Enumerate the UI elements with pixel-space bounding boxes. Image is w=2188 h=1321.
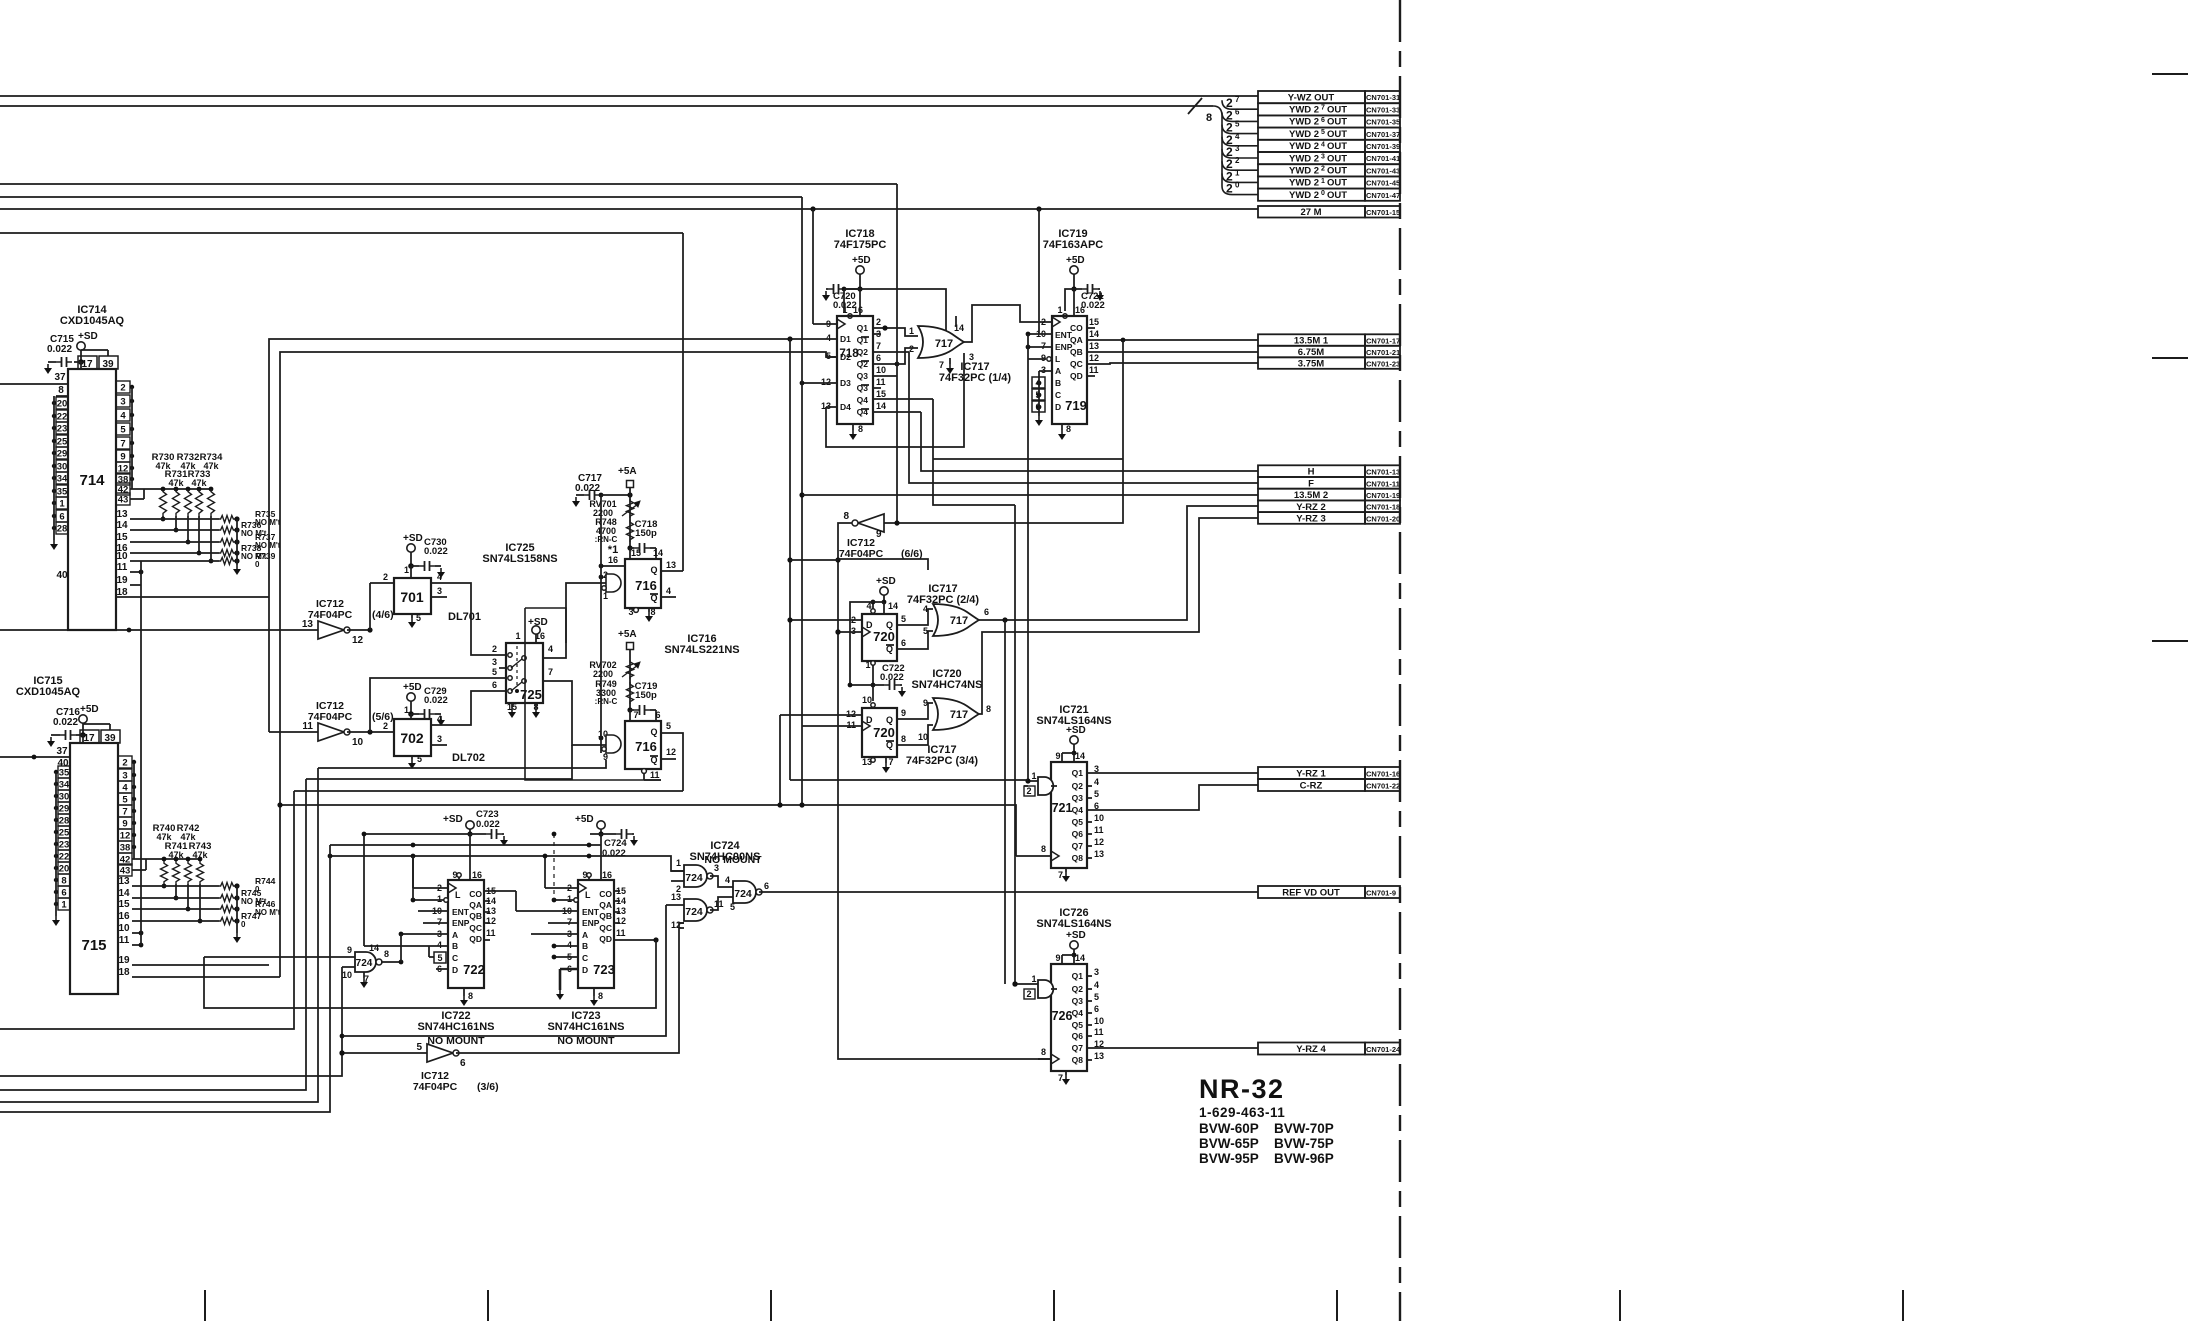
IC715 pin 8 [58, 874, 70, 886]
svg-text:OUT: OUT [1327, 166, 1347, 177]
svg-text:5: 5 [416, 613, 421, 623]
svg-text:3: 3 [1094, 967, 1099, 977]
svg-text:8: 8 [468, 991, 473, 1001]
svg-text:REF VD OUT: REF VD OUT [1282, 888, 1340, 899]
IC719 pin 4 boxed [1032, 377, 1045, 388]
svg-text:Q3: Q3 [1072, 996, 1084, 1006]
svg-text:30: 30 [57, 462, 68, 473]
svg-text:OUT: OUT [1327, 141, 1347, 152]
svg-text::RN-C: :RN-C [595, 697, 618, 706]
svg-text:YWD 2: YWD 2 [1289, 190, 1319, 201]
svg-text:14: 14 [876, 401, 886, 411]
wire net C (IC714 pin loop to 716) [0, 232, 683, 234]
svg-text:19: 19 [118, 955, 130, 966]
connector row 6.75M CN701-21 [1258, 346, 1365, 358]
sheet boundary dash-dot line right [1399, 0, 1401, 1321]
wire bundle v318 [0, 768, 318, 1102]
svg-text:10: 10 [352, 737, 364, 748]
svg-text:9: 9 [1055, 751, 1060, 761]
svg-text:8: 8 [843, 511, 849, 522]
svg-text:16: 16 [853, 305, 863, 315]
svg-text:3: 3 [714, 863, 719, 873]
wire IC714 pin 18 net [116, 596, 269, 598]
wire bundle v342 [0, 967, 342, 1076]
svg-text:1: 1 [59, 499, 65, 510]
wire inverter5 output to DL702 [347, 731, 394, 733]
wire v780 stub [779, 715, 781, 805]
IC714 left pin common rail + ground [53, 396, 55, 540]
wire D1/QA junction vertical [789, 339, 791, 780]
svg-text:702: 702 [400, 730, 424, 746]
svg-text:QD: QD [599, 934, 612, 944]
svg-text:9: 9 [876, 529, 882, 540]
IC715 pin 1 [58, 898, 70, 910]
svg-text:Q1: Q1 [857, 323, 869, 333]
svg-text:14: 14 [1075, 953, 1085, 963]
svg-text:6: 6 [460, 1058, 466, 1069]
svg-text:15: 15 [631, 548, 641, 558]
wire 724a out to 724b [710, 876, 733, 887]
svg-text:DL702: DL702 [452, 752, 485, 764]
svg-text:D: D [1055, 402, 1061, 412]
IC714 pin 7 [116, 437, 130, 449]
wire IC714 pin 10 row [130, 560, 219, 562]
svg-text:3: 3 [1235, 144, 1240, 153]
wire y805 bus [280, 804, 928, 806]
svg-text:SN74LS158NS: SN74LS158NS [482, 553, 557, 565]
svg-text:1: 1 [515, 631, 520, 641]
wire 721 and-input feed [790, 779, 1028, 781]
svg-text:CN701-35: CN701-35 [1366, 118, 1400, 127]
svg-text:47k: 47k [168, 850, 184, 860]
svg-text:CN701-37: CN701-37 [1366, 130, 1400, 139]
wire 722 clock feed [412, 856, 414, 888]
wire inverter4 output to DL701 [347, 629, 370, 631]
svg-text:0.022: 0.022 [476, 819, 500, 830]
svg-text:4: 4 [1094, 777, 1099, 787]
svg-text:8: 8 [384, 949, 389, 959]
resistor body at x199 [196, 489, 203, 516]
connector row F CN701-11 [1258, 477, 1365, 489]
svg-text:1: 1 [567, 894, 572, 904]
resistor R739 0 [219, 558, 235, 565]
frame tick bottom 5 [1336, 1290, 1338, 1321]
IC714 pin 29 [56, 447, 68, 459]
svg-text:Q3: Q3 [857, 371, 869, 381]
svg-text:OUT: OUT [1327, 153, 1347, 164]
IC715 pin 35 [58, 766, 70, 778]
IC715 pin 9 [118, 817, 132, 829]
wire 722 pin1 feed [412, 856, 414, 900]
connector row REF VD OUT CN701-9 [1258, 886, 1365, 898]
IC714 pin 28 [56, 522, 68, 534]
svg-text:Q1: Q1 [1072, 768, 1084, 778]
wire C723 to IC722 pin16 [469, 834, 471, 880]
svg-text:717: 717 [935, 338, 953, 350]
svg-text:13: 13 [671, 892, 681, 902]
svg-text:1: 1 [865, 660, 870, 670]
svg-text:3: 3 [1321, 154, 1325, 161]
counter 722 (IC722) [448, 880, 484, 988]
svg-text:7: 7 [939, 360, 944, 370]
IC714 pin 30 [56, 460, 68, 472]
wire IC715 pin 15 row [132, 908, 219, 910]
resistor R735 NO M't [219, 516, 235, 523]
svg-text:B: B [582, 941, 588, 951]
svg-text:3: 3 [1041, 365, 1046, 375]
svg-text:9: 9 [901, 708, 906, 718]
resistor body at x211 [208, 489, 215, 516]
IC body 715 (IC715) [70, 743, 118, 994]
svg-text:11: 11 [876, 377, 886, 387]
svg-text:+SD: +SD [78, 331, 98, 342]
IC715 pin 12 [118, 829, 132, 841]
svg-text:(3/6): (3/6) [477, 1081, 499, 1093]
svg-text:0: 0 [241, 920, 246, 929]
svg-text:14: 14 [116, 520, 128, 531]
svg-text:14: 14 [1089, 329, 1099, 339]
svg-text:17: 17 [83, 733, 95, 744]
svg-text:7: 7 [888, 757, 893, 767]
wire 724d output [381, 961, 401, 963]
delay line DL702 (702) [394, 719, 431, 756]
svg-text:CN701-23: CN701-23 [1366, 359, 1400, 368]
svg-text:4: 4 [122, 783, 128, 794]
svg-text:6: 6 [764, 881, 769, 891]
svg-text:+SD: +SD [876, 576, 896, 587]
IC714 pin 43 [116, 493, 130, 505]
svg-text:CN701-15: CN701-15 [1366, 208, 1400, 217]
wire IC714 pin10/11 vertical net to IC715 [140, 561, 142, 945]
svg-text:QB: QB [1070, 347, 1083, 357]
svg-text:SN74HC161NS: SN74HC161NS [547, 1021, 624, 1033]
svg-text:8: 8 [1066, 424, 1071, 434]
svg-text:724: 724 [734, 888, 752, 900]
IC714 pin 12 [116, 462, 130, 474]
wire 716b Q pin5 loop [676, 733, 683, 791]
svg-text:10: 10 [876, 365, 886, 375]
svg-text:6: 6 [901, 638, 906, 648]
wire 27M net [0, 208, 1258, 210]
wire 716a Q pin13 net [682, 233, 684, 571]
716b trigger gate [606, 735, 621, 753]
wire OR3 output to Y-RZ3 net [979, 518, 1258, 714]
svg-text:15: 15 [1089, 317, 1099, 327]
svg-text:CN701-39: CN701-39 [1366, 142, 1400, 151]
svg-text:BVW-96P: BVW-96P [1274, 1151, 1334, 1166]
resistor body at x176 (715) [173, 861, 180, 884]
svg-text:14: 14 [1075, 751, 1085, 761]
wire pin42 rail to resistors [130, 488, 211, 490]
svg-text:720: 720 [873, 725, 895, 740]
svg-text:3: 3 [851, 626, 856, 636]
wire IC721 clock net [928, 805, 1016, 856]
trimmer RV702 2200 [627, 660, 634, 679]
svg-text:5: 5 [666, 721, 671, 731]
svg-text:Q6: Q6 [1072, 1031, 1084, 1041]
connector row C-RZ CN701-22 [1258, 779, 1365, 791]
wire net A (to IC718 area) [0, 183, 897, 185]
svg-text:11: 11 [486, 928, 496, 938]
svg-text:4: 4 [548, 644, 553, 654]
trimmer RV701 2200 [627, 499, 634, 518]
svg-text:6: 6 [1321, 117, 1325, 124]
svg-text:5: 5 [901, 614, 906, 624]
wire IC715 pin 19 net [132, 964, 269, 966]
wire C721 rail left [1065, 289, 1074, 311]
svg-text:Y-WZ OUT: Y-WZ OUT [1288, 92, 1335, 103]
wire 724c input 12 net [679, 927, 684, 929]
svg-text:4: 4 [1321, 141, 1325, 148]
wire bundle y779 [306, 745, 572, 779]
IC715 pin 4 [118, 781, 132, 793]
svg-text:Y-RZ 2: Y-RZ 2 [1296, 502, 1326, 513]
wire IC721 Q1 to Y-RZ1 [1092, 772, 1258, 774]
svg-text:Q: Q [886, 620, 893, 630]
svg-text:B: B [1055, 378, 1061, 388]
IC714 pin 20 [56, 397, 68, 409]
svg-text:15: 15 [876, 389, 886, 399]
svg-text:QB: QB [469, 911, 482, 921]
wire bundle v292 y791 [294, 790, 683, 792]
bus branch 2^4 [1222, 137, 1258, 146]
svg-text:QC: QC [1070, 359, 1083, 369]
svg-text:29: 29 [57, 449, 68, 460]
svg-text:L: L [1055, 354, 1060, 364]
svg-text:717: 717 [950, 615, 968, 627]
svg-text:Q4: Q4 [1072, 1008, 1084, 1018]
one-shot 716b (IC716) [625, 721, 661, 769]
svg-text:YWD 2: YWD 2 [1289, 178, 1319, 189]
svg-text:27 M: 27 M [1300, 207, 1321, 218]
svg-text:2: 2 [1235, 156, 1240, 165]
svg-text:726: 726 [1052, 1009, 1073, 1023]
svg-text:2: 2 [120, 383, 125, 394]
connector row YWD 2 5 OUT CN701-37 [1258, 128, 1365, 140]
IC714 pin 35 [56, 485, 68, 497]
IC714 pin 1 [56, 497, 68, 509]
svg-text:ENT: ENT [452, 907, 470, 917]
resistor R737 NO M't [219, 539, 235, 546]
svg-text:12: 12 [616, 916, 626, 926]
resistor R738 NO M't [219, 550, 235, 557]
wire YWD bus trunk [0, 105, 1213, 107]
svg-text:716: 716 [635, 739, 657, 754]
svg-text:(4/6): (4/6) [372, 609, 394, 621]
wire 716b pin11 loop [644, 779, 661, 781]
svg-text:5: 5 [1094, 992, 1099, 1002]
wire net y459 [933, 458, 1123, 460]
svg-text:Q4: Q4 [1072, 805, 1084, 815]
svg-text:74F163APC: 74F163APC [1043, 239, 1104, 251]
svg-text:BVW-70P: BVW-70P [1274, 1121, 1334, 1136]
svg-text:CN701-47: CN701-47 [1366, 191, 1400, 200]
IC715 pin 29 [58, 802, 70, 814]
svg-text:4: 4 [923, 604, 928, 614]
nand gate 724d (IC724) [355, 952, 376, 972]
svg-text:CN701-43: CN701-43 [1366, 166, 1400, 175]
svg-text:BVW-65P: BVW-65P [1199, 1136, 1259, 1151]
svg-text:2: 2 [1321, 166, 1325, 173]
svg-text:12: 12 [486, 916, 496, 926]
svg-text:74F04PC: 74F04PC [413, 1081, 458, 1093]
svg-text:C: C [1055, 390, 1061, 400]
svg-text:29: 29 [59, 804, 70, 815]
frame tick bottom 7 [1902, 1290, 1904, 1321]
svg-text:5: 5 [1235, 120, 1240, 129]
svg-text:ENP: ENP [582, 918, 600, 928]
wire IC715 pin 13 row [132, 885, 219, 887]
IC714 pin 4 [116, 409, 130, 421]
svg-text:10: 10 [342, 970, 352, 980]
svg-text:+SD: +SD [443, 814, 463, 825]
wire IC715 pin 11 stub [132, 944, 141, 946]
svg-text:7: 7 [1235, 95, 1240, 104]
svg-text:2: 2 [383, 572, 388, 582]
svg-text:723: 723 [593, 962, 615, 977]
svg-text:D: D [866, 620, 873, 630]
IC715 pin 22 [58, 850, 70, 862]
IC719 pin 6 boxed [1032, 401, 1045, 412]
svg-text:47k: 47k [192, 850, 208, 860]
svg-text:6: 6 [984, 607, 989, 617]
IC715 pin 17 [80, 730, 99, 743]
svg-text:CN701-19: CN701-19 [1366, 491, 1400, 500]
svg-text:22: 22 [59, 852, 70, 863]
svg-text:Y-RZ 1: Y-RZ 1 [1296, 769, 1326, 780]
svg-text:YWD 2: YWD 2 [1289, 117, 1319, 128]
IC715 right pin rail [133, 762, 135, 859]
svg-text:CN701-31: CN701-31 [1366, 93, 1400, 102]
svg-text:11: 11 [846, 720, 856, 730]
svg-text:13.5M 2: 13.5M 2 [1294, 490, 1328, 501]
svg-text:12: 12 [666, 747, 676, 757]
connector row 3.75M CN701-23 [1258, 357, 1365, 369]
wire IC714 pin 14 row [130, 529, 219, 531]
svg-text:8: 8 [858, 424, 863, 434]
wire 726 and-input feed [1014, 505, 1016, 984]
delay line DL701 (701) [394, 578, 431, 614]
wire C722 rail down to 720b pin10 [872, 685, 874, 701]
bus slash /8 [1188, 98, 1202, 114]
svg-text:+5D: +5D [80, 704, 99, 715]
svg-text:Q: Q [650, 565, 657, 575]
wire inverter3 input [342, 1052, 427, 1054]
svg-text:13: 13 [666, 560, 676, 570]
connector row YWD 2 0 OUT CN701-47 [1258, 189, 1365, 201]
IC715 pin 30 [58, 790, 70, 802]
svg-text:1: 1 [909, 326, 914, 336]
svg-text:5: 5 [416, 1042, 422, 1053]
page split dashed line [553, 834, 555, 900]
svg-text:SN74HC161NS: SN74HC161NS [417, 1021, 494, 1033]
svg-text:BVW-60P: BVW-60P [1199, 1121, 1259, 1136]
svg-text:7: 7 [1041, 341, 1046, 351]
svg-text:12: 12 [1089, 353, 1099, 363]
frame tick right 3 [2152, 640, 2188, 642]
svg-text:34: 34 [59, 780, 70, 791]
svg-text:Q6: Q6 [1072, 829, 1084, 839]
wire 13.5M1 net from IC714 pin18 [269, 339, 790, 597]
svg-text:L: L [585, 890, 591, 900]
svg-text:5: 5 [1321, 129, 1325, 136]
connector row YWD 2 6 OUT CN701-35 [1258, 115, 1365, 127]
wire feedback loop around 720a [838, 559, 928, 570]
svg-text:150p: 150p [635, 528, 657, 539]
svg-text:+5D: +5D [1066, 255, 1085, 266]
svg-text:0.022: 0.022 [602, 848, 626, 859]
svg-text:QD: QD [1070, 371, 1083, 381]
wire Y-WZ OUT net [0, 95, 1258, 97]
IC715 pin 39 [101, 730, 120, 743]
wire 720a preset rail [862, 601, 884, 603]
svg-text:CN701-24: CN701-24 [1366, 1045, 1401, 1054]
svg-text:DL701: DL701 [448, 611, 481, 623]
svg-text:11: 11 [302, 721, 313, 732]
or gate 717 (IC717 2/4) [933, 604, 979, 636]
svg-text:H: H [1308, 467, 1315, 478]
svg-text:2: 2 [1041, 317, 1046, 327]
wire 724d inputs [204, 956, 355, 958]
svg-text:BVW-95P: BVW-95P [1199, 1151, 1259, 1166]
svg-text:CN701-18: CN701-18 [1366, 503, 1400, 512]
svg-text:YWD 2: YWD 2 [1289, 141, 1319, 152]
resistor R744 0 [219, 883, 235, 890]
svg-text:13: 13 [1094, 849, 1104, 859]
IC714 pin 3 [116, 395, 130, 407]
wire IC714 pin 15 row [130, 541, 219, 543]
svg-text:6: 6 [492, 680, 497, 690]
svg-text:37: 37 [56, 746, 68, 757]
svg-text:CN701-11: CN701-11 [1366, 479, 1400, 488]
svg-text:5: 5 [923, 626, 928, 636]
IC714 pin 38 [116, 473, 130, 485]
svg-text:3: 3 [437, 734, 442, 744]
svg-text:Y-RZ 4: Y-RZ 4 [1296, 1044, 1326, 1055]
wire inverter3 output east [456, 923, 684, 1053]
svg-text:CXD1045AQ: CXD1045AQ [60, 315, 125, 327]
svg-text:23: 23 [59, 840, 70, 851]
svg-text:ENT: ENT [582, 907, 600, 917]
svg-text:6: 6 [655, 710, 660, 720]
svg-text:Q2: Q2 [1072, 781, 1084, 791]
svg-text:10: 10 [1094, 1016, 1104, 1026]
wire C720 rail to OR1 input [844, 289, 946, 331]
svg-text:A: A [582, 930, 588, 940]
svg-text:11: 11 [616, 928, 626, 938]
svg-text:CO: CO [1070, 323, 1083, 333]
wire net 269 down to inverter5 [268, 597, 270, 732]
wire 13.5M2 output net [801, 197, 803, 803]
IC726 input and gate [1038, 980, 1053, 998]
wire loop around IC725 [525, 608, 566, 643]
wire clock bus x838 marker [835, 629, 840, 634]
svg-text:22: 22 [57, 412, 68, 423]
one-shot 716a (IC716) [625, 559, 661, 608]
wire OR1 output to IC719 pin2 [964, 305, 1052, 342]
wire IC714 pin 13 row [130, 518, 219, 520]
svg-text:701: 701 [400, 589, 424, 605]
svg-text:2: 2 [122, 758, 127, 769]
wire OR2 output to Y-RZ2 net [979, 506, 1258, 620]
svg-text:1-629-463-11: 1-629-463-11 [1199, 1105, 1285, 1120]
connector row YWD 2 1 OUT CN701-45 [1258, 176, 1365, 188]
svg-text:2: 2 [1026, 989, 1031, 999]
svg-text:0.022: 0.022 [53, 717, 78, 728]
svg-text:16: 16 [608, 555, 618, 565]
svg-text:8: 8 [650, 607, 655, 617]
IC714 pin 25 [56, 435, 68, 447]
